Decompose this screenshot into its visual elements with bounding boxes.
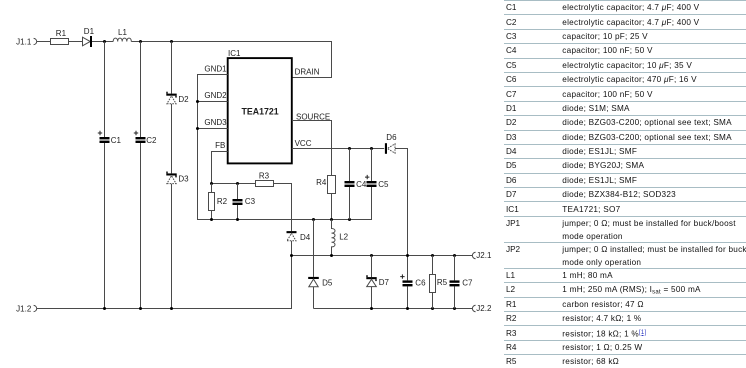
connector J2.2 (472, 305, 475, 311)
junction C7 bottom (453, 307, 456, 310)
wire GND1 stub and ground bus (198, 75, 372, 220)
junction C6 bottom (406, 307, 409, 310)
junction D7 bottom (370, 307, 373, 310)
diode D7 (zener) (366, 275, 376, 281)
svg-text:C4: C4 (356, 180, 367, 189)
diode D4 (287, 231, 297, 233)
capacitor C1 (100, 137, 110, 143)
resistor R2 (211, 184, 213, 220)
svg-text:C6: C6 (415, 279, 426, 288)
junction C4 top (348, 147, 351, 150)
svg-text:FB: FB (215, 141, 225, 150)
diode D2 (zener) (166, 92, 176, 98)
wire SOURCE to R4 (292, 121, 332, 176)
junction C4 bottom (348, 218, 351, 221)
junction GND2 (196, 100, 199, 103)
wire J1.2 bottom rail (37, 241, 292, 309)
junction D7 top (370, 254, 373, 257)
wire C1 branch (104, 42, 106, 309)
wire D1 to L1 (92, 41, 113, 43)
wire J1.1 to R1 (37, 41, 51, 43)
wire R4 to ground bus (331, 194, 333, 220)
wire R1 to D1 (69, 41, 83, 43)
diode D5 (308, 277, 319, 279)
connector J1.2 (34, 305, 37, 311)
svg-text:DRAIN: DRAIN (295, 67, 320, 76)
svg-text:L1: L1 (118, 28, 127, 37)
svg-text:D4: D4 (300, 233, 311, 242)
wire R3 to D4 (274, 184, 292, 232)
junction R5 top (431, 254, 434, 257)
junction C6 line (406, 254, 409, 257)
junction C3 top (236, 182, 239, 185)
resistor R5 (432, 256, 434, 309)
capacitor C3 (237, 184, 239, 220)
resistor R3 (256, 181, 274, 187)
svg-text:J2.2: J2.2 (476, 304, 492, 313)
wire D7 branch (371, 256, 373, 309)
node B (C2 tap) (139, 40, 142, 43)
junction C1 bottom (103, 307, 106, 310)
wire D6 to C6 (395, 149, 408, 256)
svg-text:C7: C7 (462, 279, 473, 288)
capacitor C4 (349, 149, 351, 220)
svg-text:TEA1721: TEA1721 (242, 106, 279, 116)
svg-text:J1.1: J1.1 (16, 37, 32, 46)
svg-text:J2.1: J2.1 (476, 251, 492, 260)
svg-text:L2: L2 (339, 233, 348, 242)
wire VCC line (292, 148, 384, 150)
wire top rail to DRAIN (131, 42, 331, 78)
svg-text:VCC: VCC (295, 139, 312, 148)
wire J2.1 rail (292, 255, 473, 257)
svg-text:C1: C1 (111, 136, 122, 145)
svg-text:C2: C2 (146, 136, 157, 145)
wire D2 D3 branch (171, 42, 173, 309)
capacitor C2 (136, 137, 146, 143)
resistor R1 (51, 39, 69, 45)
junction R2 bottom (210, 218, 213, 221)
svg-text:GND1: GND1 (204, 64, 227, 73)
svg-text:R3: R3 (259, 171, 270, 180)
junction L2 bottom (330, 254, 333, 257)
connector J2.1 (472, 252, 475, 258)
junction C2 bottom (139, 307, 142, 310)
svg-text:D2: D2 (178, 95, 189, 104)
junction D4 line on J2.1 (290, 254, 293, 257)
wire J2.2 rail (314, 308, 473, 310)
capacitor C6 (407, 256, 409, 309)
svg-text:R4: R4 (316, 178, 327, 187)
svg-text:D1: D1 (84, 27, 95, 36)
junction L2 top (330, 218, 333, 221)
wire GND2 stub (198, 101, 228, 103)
junction FB node (210, 182, 213, 185)
svg-text:D6: D6 (386, 133, 397, 142)
node C (D2 tap) (170, 40, 173, 43)
capacitor C7 (454, 256, 456, 309)
diode D3 (zener) (166, 172, 176, 178)
svg-text:GND3: GND3 (204, 118, 227, 127)
diode D1 (83, 37, 91, 46)
wire FB stub (212, 152, 256, 184)
diode D6 (385, 143, 387, 154)
svg-text:D5: D5 (322, 278, 333, 287)
svg-text:D3: D3 (178, 175, 189, 184)
wire GND3 stub (198, 128, 228, 130)
junction C7 top (453, 254, 456, 257)
junction C5 top (370, 147, 373, 150)
svg-text:R2: R2 (217, 197, 228, 206)
svg-text:R1: R1 (56, 29, 67, 38)
node A (C1 tap) (103, 40, 106, 43)
IC1 TEA1721 box (228, 58, 292, 163)
wire D5 branch (313, 220, 315, 309)
junction D3 bottom (170, 307, 173, 310)
svg-text:SOURCE: SOURCE (296, 112, 330, 121)
svg-text:C5: C5 (378, 180, 389, 189)
connector J1.1 (34, 38, 37, 44)
svg-text:R5: R5 (437, 278, 448, 287)
junction GND3 (196, 127, 199, 130)
svg-text:IC1: IC1 (228, 49, 241, 58)
junction D5 tap (312, 218, 315, 221)
junction C3 bottom (236, 218, 239, 221)
svg-text:GND2: GND2 (204, 91, 227, 100)
svg-text:J1.2: J1.2 (16, 304, 32, 313)
wire C2 branch (140, 42, 142, 309)
inductor L2 (332, 220, 336, 256)
svg-text:D7: D7 (379, 278, 390, 287)
resistor R4 (328, 176, 336, 194)
capacitor C5 (371, 149, 373, 220)
junction R5 bottom (431, 307, 434, 310)
svg-text:C3: C3 (245, 197, 256, 206)
inductor L1 (113, 38, 131, 41)
